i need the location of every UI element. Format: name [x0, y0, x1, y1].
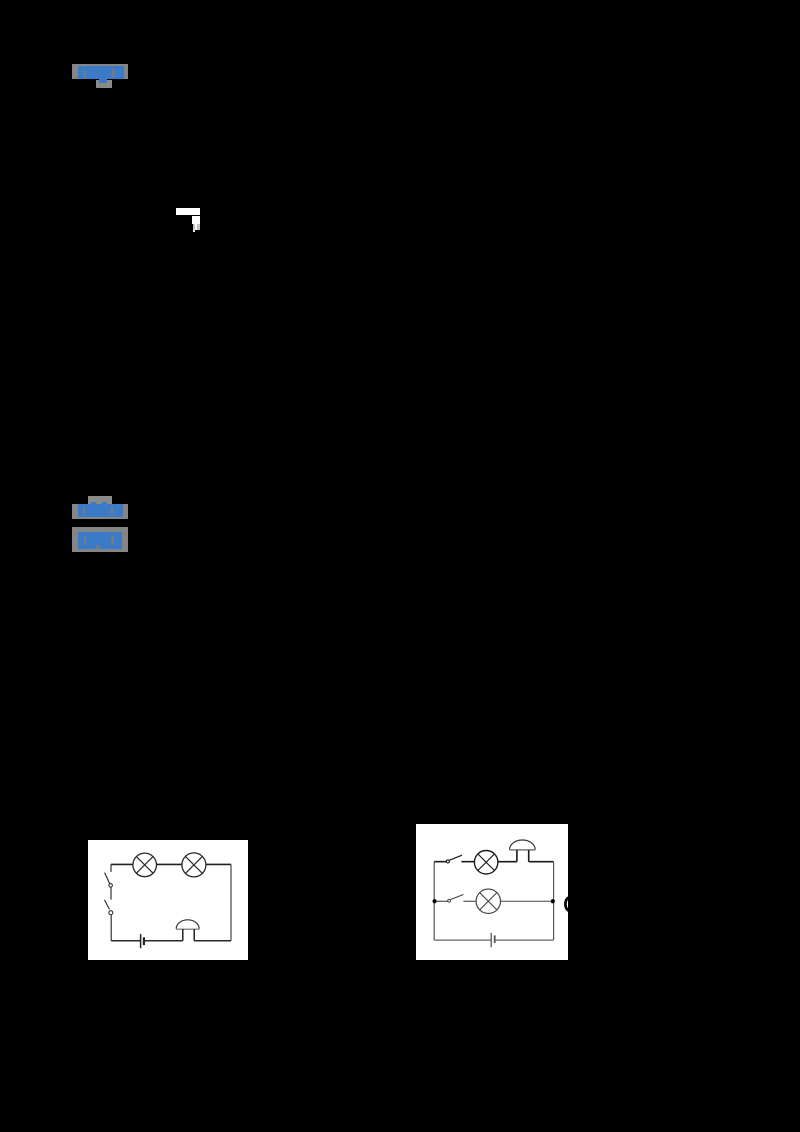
node dot left: [432, 899, 436, 903]
wire: left lower drop: [110, 914, 112, 940]
circuit diagram image 1 (series circuit): [88, 840, 248, 960]
wire: bell to right corner: [528, 860, 553, 862]
wire: switch to lamp: [461, 860, 474, 862]
white corner fragment shape: [176, 208, 200, 216]
wire: lamp to bell: [497, 860, 516, 862]
switch S2 hinge circle: [447, 899, 450, 902]
wire: right riser: [552, 861, 554, 939]
battery short plate: [493, 935, 495, 943]
wire: bottom right run: [495, 939, 553, 941]
wire: middle lamp to right node: [500, 900, 552, 902]
wire: bottom left run: [434, 939, 490, 941]
node dot right: [550, 899, 554, 903]
battery short plate: [143, 937, 145, 945]
highlighted link text 1 : blue text mass: [78, 66, 124, 79]
bell B1 base: [176, 927, 199, 929]
highlighted link text 2 : blue text mass: [78, 504, 123, 517]
switch S1 hinge circle: [446, 860, 449, 863]
wire: right riser: [230, 864, 232, 940]
highlighted link text 1 : glyph gap marks: [84, 70, 86, 79]
wire: left corner drop: [110, 864, 112, 872]
wire: top run: [111, 863, 231, 865]
lamp L1: [133, 853, 157, 877]
bell B1 right lead: [193, 928, 195, 940]
switch S1 blade: [105, 872, 110, 883]
highlighted link text 3 : glyph gap marks: [84, 536, 86, 546]
wire: middle branch left stub: [436, 900, 447, 902]
lamp L1 (top branch): [474, 850, 497, 873]
wire: bottom left run: [111, 939, 140, 941]
bell B1 left lead: [515, 849, 517, 861]
switch S1 hinge circle: [109, 883, 113, 887]
highlighted link text 3 : blue text mass: [78, 532, 122, 549]
highlighted link text 2 : glyph gap marks: [83, 507, 85, 515]
switch S2 hinge circle: [109, 910, 113, 914]
bell B1 dome: [509, 840, 535, 850]
lamp L2 (middle branch): [476, 889, 500, 913]
wire: left riser: [433, 861, 435, 939]
wire: between switches: [110, 887, 112, 899]
bell B1 right lead: [527, 849, 529, 861]
highlighted link text 1 (top) : gray selection box: [72, 64, 127, 80]
highlighted link text 3 : gray selection box: [72, 527, 128, 552]
highlighted link text 2 : gray selection box: [72, 504, 128, 519]
bell B1 left lead: [182, 928, 184, 940]
circuit diagram image 2 (parallel circuit): [416, 824, 568, 960]
battery long plate: [140, 934, 142, 948]
switch S2 blade: [450, 894, 463, 899]
wire: top left stub: [434, 860, 446, 862]
switch S1 blade: [449, 855, 461, 860]
bell B1 dome: [176, 919, 199, 928]
highlighted link text 1 : gray tab below: [96, 80, 112, 89]
wire: bottom middle run: [145, 939, 183, 941]
wire: bottom right run: [194, 939, 231, 941]
bell B1 base: [509, 848, 535, 850]
partial digit 0 clipped at right edge: [565, 897, 574, 911]
switch S2 blade: [105, 899, 110, 908]
highlighted link text 2 : gray tab above: [88, 496, 112, 504]
wire: middle switch to lamp: [463, 900, 476, 902]
battery long plate: [490, 933, 492, 947]
lamp L2: [182, 852, 206, 876]
